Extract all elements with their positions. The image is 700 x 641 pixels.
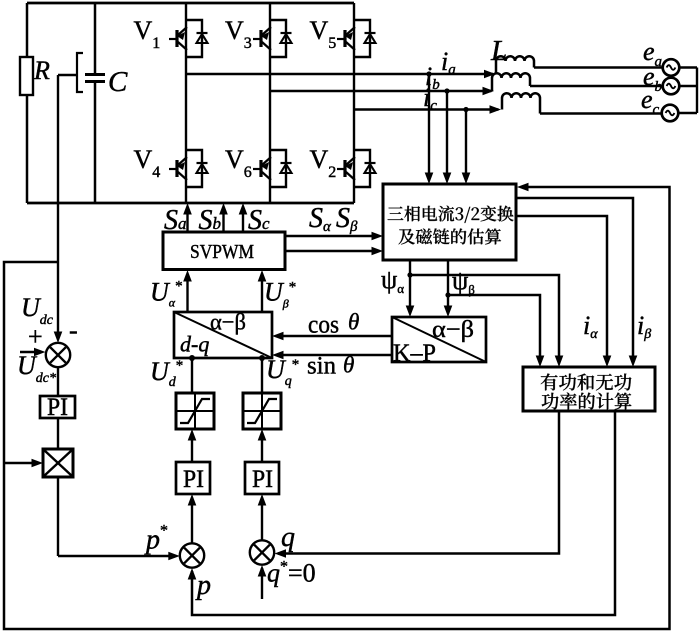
svg-text:PI: PI [252,466,273,493]
svg-text:θ: θ [343,353,354,378]
svg-text:q*=0: q*=0 [267,559,316,588]
svg-text:θ: θ [348,310,359,335]
svg-text:α−β: α−β [210,310,246,335]
svg-text:cos: cos [308,312,339,339]
svg-text:SVPWM: SVPWM [190,241,254,263]
svg-text:sin: sin [307,352,336,379]
svg-text:α−β: α−β [432,317,474,343]
svg-text:q: q [281,522,295,553]
svg-text:d-q: d-q [180,332,209,357]
svg-text:PI: PI [183,466,204,493]
svg-text:R: R [33,56,50,85]
svg-text:-: - [69,316,78,345]
svg-text:p: p [195,570,211,601]
svg-text:PI: PI [47,394,68,421]
svg-text:C: C [108,66,128,98]
svg-text:K–P: K–P [393,340,436,367]
svg-text:L: L [490,35,507,67]
